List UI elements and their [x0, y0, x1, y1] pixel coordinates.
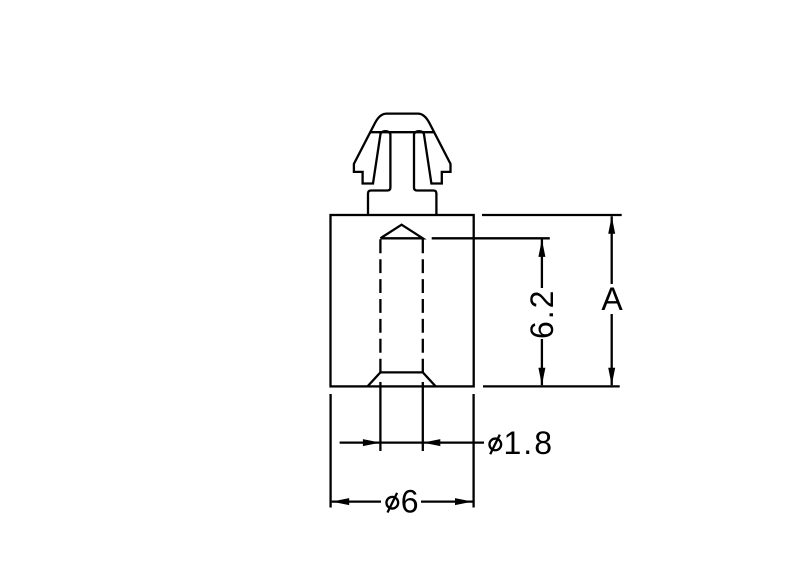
text o1.8 diameter symbol slash [490, 435, 500, 455]
extension line hole left [379, 382, 381, 451]
arrowhead 6.2 down [538, 368, 545, 386]
arrowhead o1.8 right-pointing [363, 439, 381, 446]
arrowhead A up [608, 216, 615, 234]
extension line body left [329, 394, 331, 508]
dimension line o6 left segment [332, 500, 381, 502]
extension line hole right [422, 382, 424, 451]
svg-text:A: A [601, 281, 624, 317]
arrowhead 6.2 up [538, 239, 545, 257]
countersink chamfer [368, 372, 436, 386]
text o1.8 diameter symbol ring [489, 439, 501, 451]
arrowhead o6 right-pointing [455, 498, 473, 505]
dimension line o6 right segment [421, 500, 473, 502]
hole dashed line left [379, 239, 381, 372]
svg-text:1.8: 1.8 [504, 425, 554, 461]
arrowhead A down [608, 368, 615, 386]
extension line top of 6.2 [432, 237, 550, 239]
arrowhead o6 left-pointing [332, 498, 350, 505]
hole dashed line right [422, 239, 424, 372]
body rectangle [331, 215, 474, 386]
svg-text:6.2: 6.2 [524, 289, 560, 339]
text o6 diameter symbol slash [388, 493, 398, 513]
extension line body right [472, 394, 474, 508]
extension line bottom shared [483, 385, 620, 387]
dimension line 6.2 upper segment [541, 239, 543, 288]
extension line top of A [482, 214, 622, 216]
dimension line A upper segment [611, 216, 613, 284]
snap-fit top cap and wings outline [354, 114, 451, 215]
svg-text:6: 6 [401, 484, 421, 520]
dimension line o1.8 [340, 441, 484, 443]
dimension line 6.2 lower segment [541, 339, 543, 385]
text o6 diameter symbol ring [386, 497, 398, 509]
dimension line A lower segment [611, 314, 613, 385]
drill point triangle [380, 225, 422, 239]
cap shoulder line [370, 131, 434, 133]
arrowhead o1.8 left-pointing [423, 439, 441, 446]
